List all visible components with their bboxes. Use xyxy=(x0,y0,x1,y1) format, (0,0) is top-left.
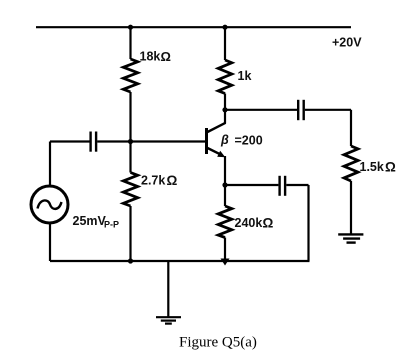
svg-text:Figure Q5(a): Figure Q5(a) xyxy=(179,335,257,351)
svg-text:240k: 240k xyxy=(235,216,263,230)
svg-text:2.7k: 2.7k xyxy=(141,174,165,188)
svg-text:Ω: Ω xyxy=(263,216,274,231)
svg-text:1: 1 xyxy=(238,69,245,83)
svg-text:β: β xyxy=(220,133,229,147)
svg-text:Ω: Ω xyxy=(167,173,178,188)
svg-text:25mV: 25mV xyxy=(73,214,107,228)
svg-text:18k: 18k xyxy=(140,50,161,64)
svg-text:k: k xyxy=(245,69,252,83)
svg-text:=200: =200 xyxy=(235,134,263,148)
svg-text:1.5k: 1.5k xyxy=(360,160,384,174)
svg-text:+20V: +20V xyxy=(332,36,362,50)
svg-text:Ω: Ω xyxy=(161,49,171,64)
svg-text:P-P: P-P xyxy=(104,220,119,230)
svg-text:Ω: Ω xyxy=(385,160,396,175)
